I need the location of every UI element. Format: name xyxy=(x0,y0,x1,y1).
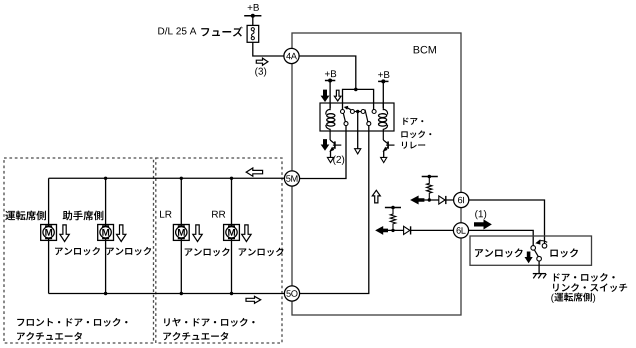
label ドア・ xyxy=(403,118,423,125)
wire relay left output to 5M xyxy=(300,125,346,178)
relay contact fixed right outer (B+) xyxy=(372,110,376,114)
relay switch arm right xyxy=(365,110,368,122)
switch arm xyxy=(535,250,539,257)
wire passenger motor riser top xyxy=(105,178,107,224)
relay contact fixed left outer (B+) xyxy=(341,110,345,114)
wire +B to right coil xyxy=(382,81,384,108)
diode D1 (6I) xyxy=(439,196,445,204)
connector 5M label xyxy=(286,175,297,181)
switch actuation arrow xyxy=(539,241,547,243)
power symbol +B left coil xyxy=(325,80,335,82)
power symbol +B right coil +B label xyxy=(378,71,389,78)
label アンロック (driver) xyxy=(55,247,100,256)
wire 6I to link switch lock contact xyxy=(469,200,545,244)
label リレー xyxy=(402,142,425,149)
wire relay right output to 5O xyxy=(300,125,369,293)
wire driver motor riser bottom xyxy=(48,240,50,293)
label RR xyxy=(212,211,225,218)
node bus bottom at LR motor xyxy=(180,292,183,295)
node bus top at passenger motor xyxy=(104,177,107,180)
wire passenger motor riser bottom xyxy=(105,240,107,293)
wire +B to fuse xyxy=(252,16,254,26)
label フロント・ドア・ロック・ xyxy=(17,318,127,327)
label LR xyxy=(160,211,171,218)
ground arrow (relay common) xyxy=(355,149,361,154)
node 6L junction xyxy=(391,229,394,232)
flow arrow (3) open right xyxy=(256,58,268,65)
motor M1 driver door lock actuator xyxy=(41,225,57,241)
relay contact fixed right mid (gnd) xyxy=(361,110,365,114)
connector 5O label xyxy=(286,290,297,297)
motor M2 passenger door lock actuator xyxy=(98,225,114,241)
wire RR motor riser top xyxy=(231,178,233,224)
relay contact fixed left mid (gnd) xyxy=(350,110,354,114)
label アンロック (passenger) xyxy=(106,247,151,256)
ground arrow Q2 xyxy=(381,157,387,162)
label アンロック (switch) xyxy=(475,248,523,257)
label (2) xyxy=(333,156,344,165)
wire 4A to relay common feed xyxy=(299,56,356,89)
flow arrow solid down (lock) xyxy=(322,90,329,101)
power symbol +B left coil +B label xyxy=(325,70,336,77)
transistor Q2 (unlock drive) xyxy=(383,140,388,144)
switch pivot contact xyxy=(537,256,542,261)
wire 6I sense line xyxy=(418,199,454,201)
ground arrow Q1 xyxy=(327,157,333,162)
motor M4 RR door lock actuator xyxy=(224,225,240,241)
label 運転席側 (switch side) xyxy=(554,293,592,302)
door lock link switch box xyxy=(470,236,592,265)
connector 5O xyxy=(284,286,299,301)
flow arrow open down (unlock) xyxy=(334,90,341,101)
relay switch arm left xyxy=(343,113,345,122)
connector 6L xyxy=(453,223,468,238)
wire lock bus (bottom) xyxy=(49,293,285,295)
connector 6L label xyxy=(457,227,466,234)
node 6I junction xyxy=(428,198,431,201)
wire RR motor riser bottom xyxy=(231,240,233,293)
rear actuator dashed box xyxy=(156,158,282,343)
power rail tick (6I pull-up) xyxy=(422,176,438,178)
diode D2 (6L) xyxy=(404,226,410,234)
resistor R1 (6I pull-up) xyxy=(427,177,432,201)
wire 6L to link switch unlock contact xyxy=(469,230,534,245)
label リンク・スイッチ xyxy=(553,283,627,292)
motor M2 passenger door lock actuator label M xyxy=(102,229,109,236)
signal arrow to CPU (6L) xyxy=(376,227,387,234)
relay movable contact left bottom xyxy=(344,122,348,126)
flow arrow open right (lock bus) xyxy=(246,296,261,303)
label ドア・ロック・ xyxy=(554,273,615,282)
relay movable contact right bottom xyxy=(367,122,371,126)
label BCM xyxy=(414,46,436,54)
power symbol +B top +B label xyxy=(248,4,259,11)
wire 6L sense line xyxy=(383,229,454,231)
label 助手席側 xyxy=(63,211,104,221)
wire relay contact branch xyxy=(343,89,374,109)
motor M4 RR door lock actuator label M xyxy=(228,229,235,236)
relay common node xyxy=(354,111,361,113)
transistor Q1 (lock drive) xyxy=(330,140,335,144)
wire switch to ground xyxy=(538,261,540,274)
resistor R2 (6L pull-up) xyxy=(390,208,395,231)
wire Q2 emitter down xyxy=(383,151,385,159)
wire Q1 emitter down xyxy=(330,151,332,159)
fuse F1 D/L 25A xyxy=(247,25,259,42)
wire relay common to ground arrow xyxy=(357,112,359,150)
connector 6I xyxy=(454,192,469,207)
relay K1 box (door lock relay) xyxy=(320,103,394,131)
unlock direction arrow (passenger) xyxy=(117,225,126,242)
relay coil right xyxy=(382,103,384,110)
relay actuation arrow xyxy=(347,108,351,110)
ground (link switch) xyxy=(533,273,546,275)
label アンロック (RR) xyxy=(239,248,284,257)
connector 5M xyxy=(284,171,299,186)
wire LR motor riser top xyxy=(180,178,182,224)
label (運転席側) paren open xyxy=(551,294,554,303)
unlock direction arrow (RR) xyxy=(242,225,251,242)
connector 6I label xyxy=(458,197,464,204)
connector 4A label xyxy=(286,53,297,59)
wire fuse to connector 4A xyxy=(253,42,284,56)
relay coil left xyxy=(329,103,331,110)
node bus top at LR motor xyxy=(180,177,183,180)
switch contact unlock xyxy=(531,246,536,251)
wire +B to left coil xyxy=(329,81,331,109)
flow arrow solid right (1) xyxy=(475,220,491,228)
label アクチュエータ (front) xyxy=(17,332,82,341)
fuse label D/L 25 A xyxy=(158,27,196,34)
label アクチュエータ (rear) xyxy=(163,332,228,341)
power rail tick (6L pull-up) xyxy=(385,207,401,209)
front actuator dashed box xyxy=(4,158,154,343)
flow arrow solid down (switch) xyxy=(526,252,532,262)
node bus top at RR motor xyxy=(230,177,233,180)
unlock direction arrow (LR) xyxy=(193,225,202,242)
label ロック (switch) xyxy=(550,248,578,257)
motor M3 LR door lock actuator label M xyxy=(178,229,185,236)
power symbol +B right coil xyxy=(378,80,388,82)
wire driver motor riser top xyxy=(48,178,50,224)
motor M3 LR door lock actuator xyxy=(173,225,189,241)
wire LR motor riser bottom xyxy=(180,240,182,293)
signal arrow to CPU (6I) xyxy=(411,197,423,204)
node bus bottom at passenger motor xyxy=(104,292,107,295)
motor M1 driver door lock actuator label M xyxy=(45,229,52,236)
flow arrow open up xyxy=(372,190,380,203)
label ロック・ xyxy=(401,130,431,138)
fuse label フューズ xyxy=(201,27,242,37)
wire unlock bus (top) xyxy=(49,177,285,179)
label (1) xyxy=(475,210,486,219)
label 運転席側 xyxy=(5,211,46,221)
switch contact lock xyxy=(542,244,547,249)
flow arrow solid down at Q1 xyxy=(322,140,328,150)
power symbol +B top xyxy=(244,15,261,17)
label (3) xyxy=(255,67,266,76)
label (運転席側) paren close xyxy=(593,294,596,303)
flow arrow open left (unlock bus) xyxy=(246,168,262,176)
connector 4A xyxy=(284,48,299,63)
BCM box xyxy=(292,33,461,315)
node relay feed junction xyxy=(354,88,358,92)
node bus bottom at RR motor xyxy=(230,292,233,295)
label アンロック (LR) xyxy=(185,248,230,257)
unlock direction arrow (driver) xyxy=(60,225,69,242)
label リヤ・ドア・ロック・ xyxy=(164,318,254,327)
